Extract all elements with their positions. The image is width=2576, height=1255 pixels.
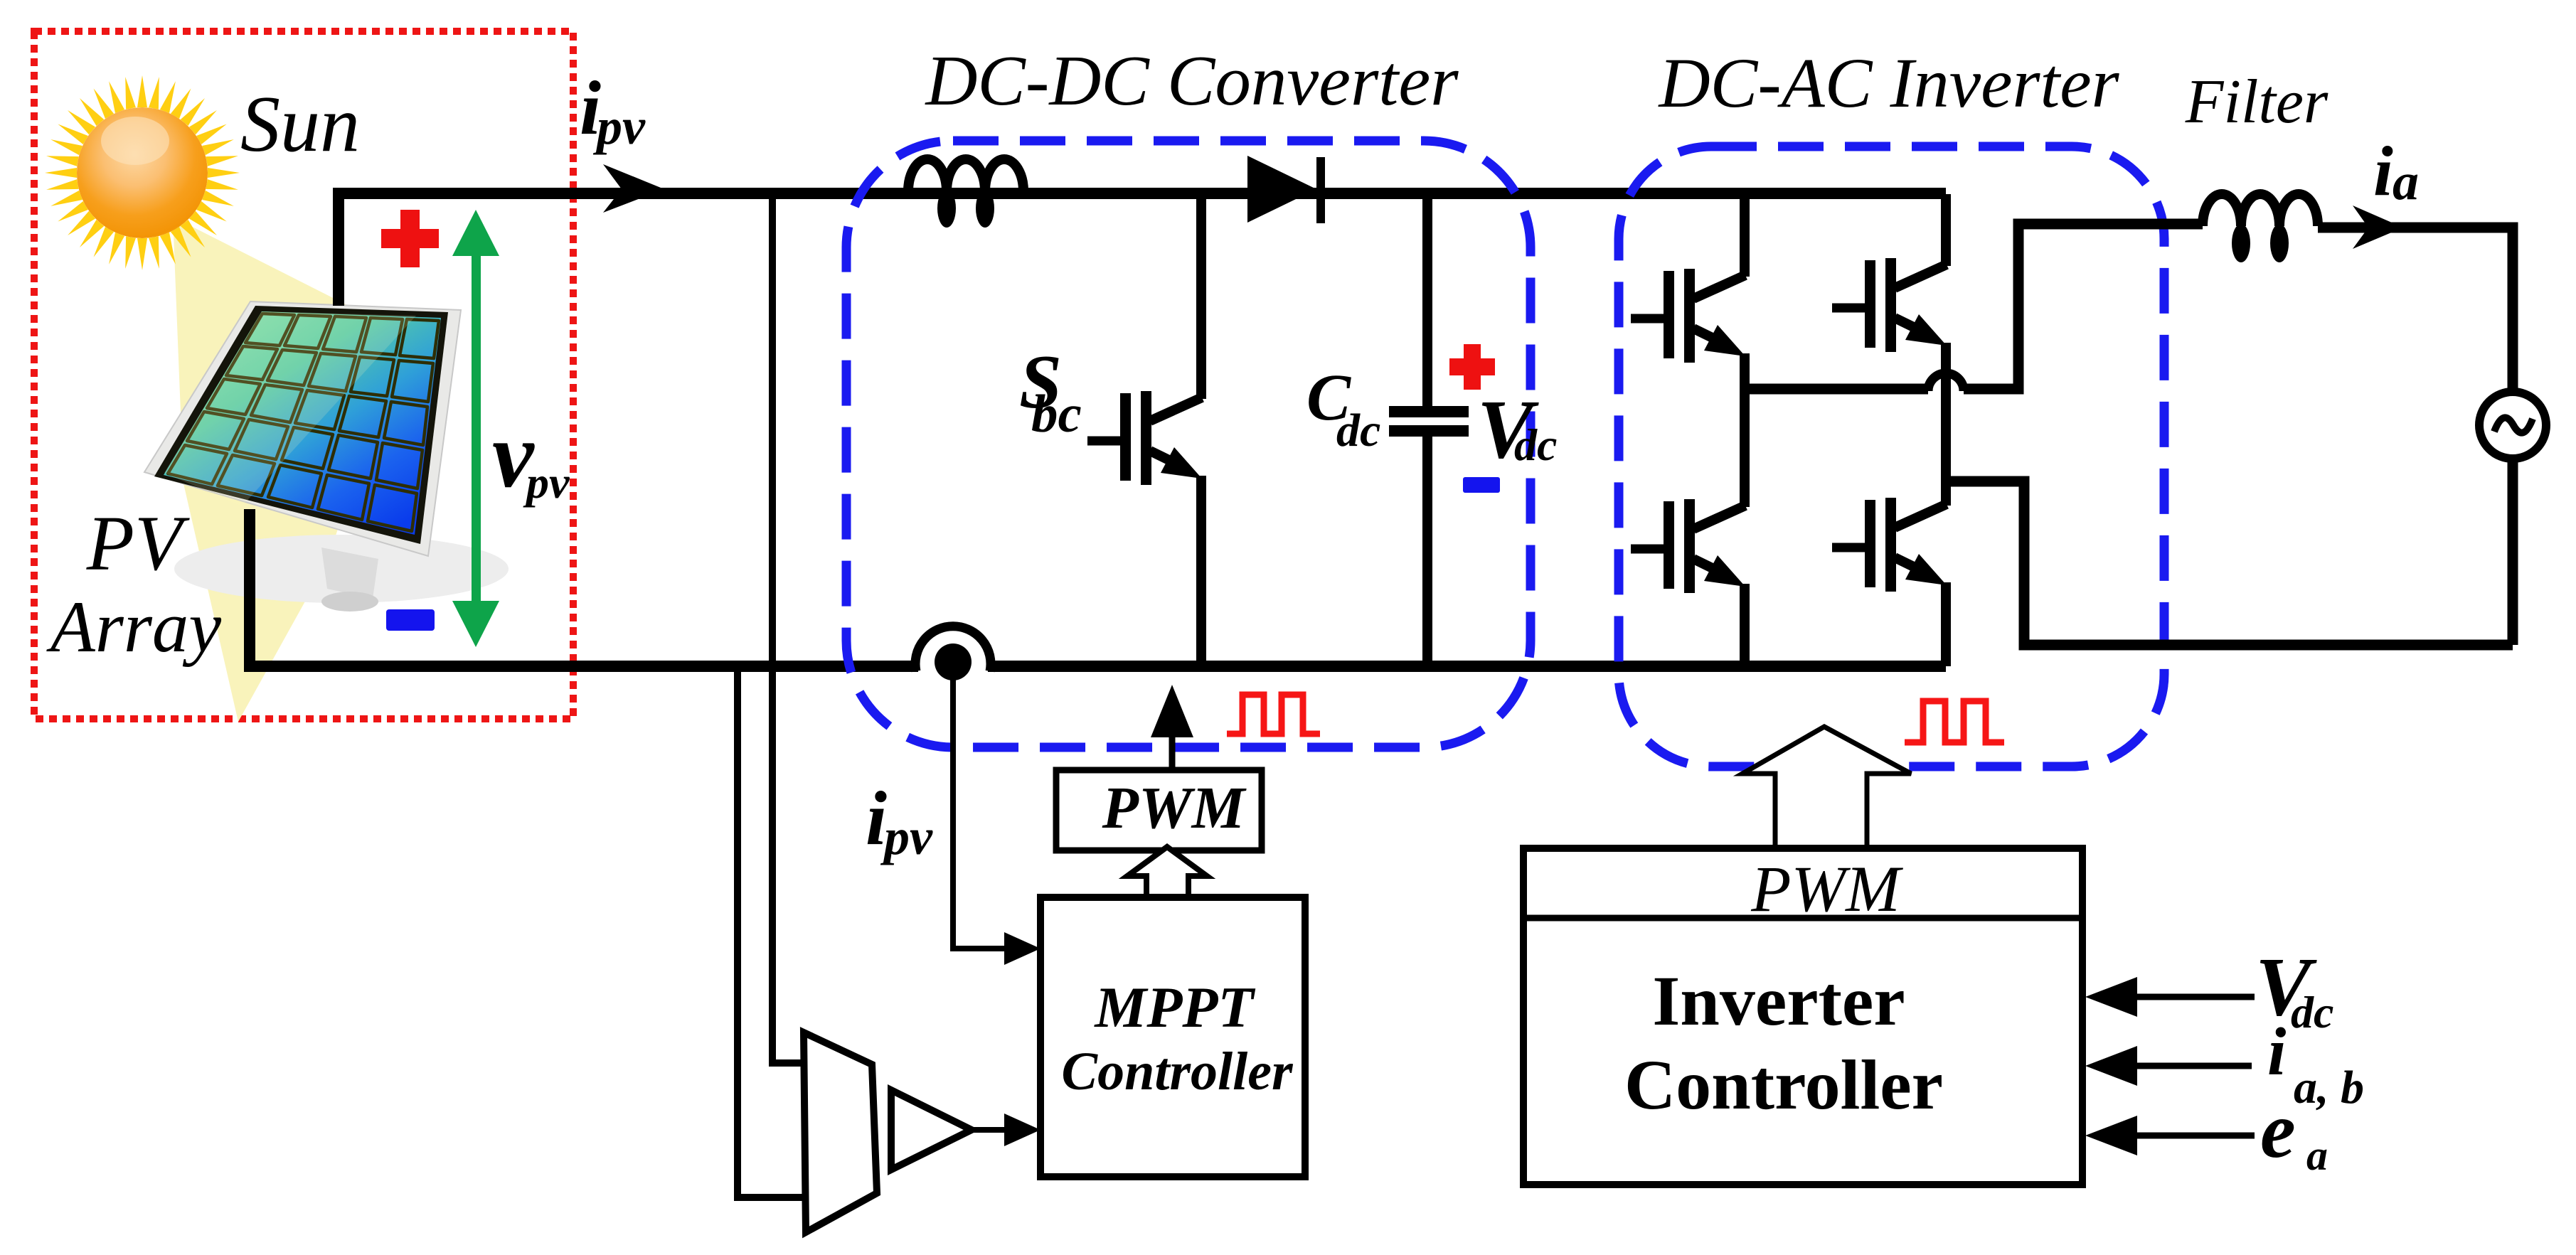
svg-text:dc: dc (2291, 987, 2333, 1037)
svg-text:MPPT: MPPT (1093, 975, 1255, 1040)
transistor Q2 (inverter IGBT top-right) (1832, 194, 1947, 481)
svg-text:Controller: Controller (1624, 1045, 1943, 1124)
node: PV positive terminal (+) (381, 210, 439, 267)
svg-text:a: a (2393, 153, 2419, 211)
wire: v_pv sense line from positive bus (772, 193, 804, 1063)
pedestal (321, 548, 378, 599)
wire: v_pv sense line from negative bus (738, 666, 804, 1197)
block arrow: MPPT controller to PWM (1127, 847, 1207, 897)
transistor Q4 (inverter IGBT bottom-right) (1832, 481, 1947, 666)
svg-text:DC-DC Converter: DC-DC Converter (924, 41, 1459, 120)
PV panel (144, 301, 461, 612)
node: current-sense tap (dot) (935, 643, 972, 680)
wire: i_a,b feedback input arrow (2137, 1063, 2252, 1069)
measurement arrow: v_pv (green double arrow) (452, 210, 499, 647)
svg-text:Sun: Sun (240, 80, 360, 169)
wire: e_a feedback input arrow (2137, 1133, 2255, 1139)
wire: i_pv sense line into MPPT controller (953, 673, 1010, 949)
amplifier (buffer triangle) (891, 1090, 972, 1170)
svg-text:e: e (2260, 1086, 2296, 1175)
svg-text:dc: dc (1514, 420, 1557, 470)
inductor L1 (boost inductor) (908, 159, 1023, 191)
transistor Q1 (inverter IGBT top-left) (1631, 194, 1745, 389)
capacitor C_dc (DC-link) (1389, 194, 1469, 666)
transistor Q3 (inverter IGBT bottom-left) (1631, 389, 1745, 666)
wire: PWM gate drive arrow to S_bc (1169, 734, 1176, 770)
diode D1 (boost diode) (1247, 156, 1316, 223)
wire: positive DC bus from PV array to inverter (339, 193, 1946, 306)
wire: buffer output arrow into MPPT controller (972, 1127, 1010, 1133)
transistor S_bc (boost IGBT) (1087, 194, 1202, 666)
svg-text:Array: Array (46, 587, 222, 668)
svg-text:a, b: a, b (2294, 1062, 2364, 1114)
svg-text:pv: pv (592, 98, 646, 155)
block arrow: inverter controller to DC-AC inverter (1742, 727, 1911, 848)
svg-text:PV: PV (86, 500, 190, 587)
node: V_dc negative polarity (-) (1463, 477, 1500, 493)
PV array boundary (red dotted rectangle) (34, 31, 573, 719)
node: V_dc positive polarity (+) (1449, 344, 1495, 390)
DC-AC inverter dashed boundary (1619, 146, 2164, 767)
DC-DC converter dashed boundary (846, 141, 1531, 747)
arrowhead: i_pv current direction on positive bus (603, 164, 664, 213)
inductor L2 (filter inductor) (2203, 194, 2318, 226)
node: PV negative terminal (-) (386, 609, 435, 631)
MPPT controller box (1040, 897, 1305, 1177)
value label: PWM pulse waveform (red, inverter) (1905, 701, 2004, 742)
inverter controller box (1523, 848, 2082, 1185)
svg-text:i: i (2373, 132, 2393, 210)
wire: filter output with i_a arrowhead (2318, 228, 2513, 391)
PWM box (MPPT) (1056, 770, 1262, 850)
svg-text:pv: pv (523, 457, 570, 508)
svg-text:DC-AC Inverter: DC-AC Inverter (1657, 43, 2119, 122)
value label: PWM pulse waveform (red, DC-DC) (1227, 695, 1320, 734)
wire: V_dc feedback input arrow (2137, 994, 2255, 1000)
current sensor arc on negative bus (915, 626, 991, 671)
voltage transducer (trapezoid sensor) (804, 1032, 877, 1232)
sun (45, 75, 240, 270)
svg-text:a: a (2306, 1132, 2328, 1179)
sun beam (173, 217, 402, 722)
svg-text:PWM: PWM (1102, 775, 1247, 841)
wire: negative DC bus (return) (250, 509, 918, 666)
AC source (grid e_a) (2479, 392, 2546, 459)
svg-text:i: i (2267, 1014, 2286, 1089)
svg-text:Controller: Controller (1061, 1042, 1294, 1101)
PV panel shadow (174, 535, 509, 603)
svg-text:dc: dc (1336, 405, 1380, 456)
svg-text:bc: bc (1031, 385, 1082, 444)
svg-text:pv: pv (880, 808, 933, 865)
svg-text:Inverter: Inverter (1652, 961, 1905, 1040)
wire: inverter phase A output (hops over phase B leg) (1745, 384, 1928, 395)
svg-text:PWM: PWM (1750, 853, 1903, 925)
wire: inverter phase B output to AC source (1946, 481, 2513, 645)
svg-text:Filter: Filter (2185, 68, 2328, 137)
